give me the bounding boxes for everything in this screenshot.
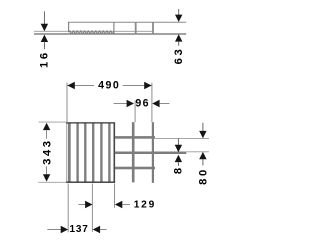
- dim 129 left stub: [78, 204, 85, 206]
- dim 137 line left: [47, 229, 61, 231]
- box divider vertical 1: [113, 22, 115, 34]
- dim 63 lower arrow: [175, 34, 182, 41]
- wavy corrugation line: [69, 31, 114, 34]
- dim 343 bottom extension: [38, 181, 66, 183]
- dim 16 upper arrow: [41, 24, 48, 31]
- dim 343 line upper segment: [46, 130, 48, 139]
- dim 96 left extension: [134, 101, 136, 123]
- slat 4: [100, 123, 102, 182]
- svg-text:96: 96: [135, 98, 149, 110]
- dim 137 left arrow: [61, 226, 68, 233]
- dim 137 right stub: [100, 229, 107, 231]
- rung 3: [115, 167, 155, 170]
- dim 129 left arrow: [85, 201, 92, 208]
- dim 80 lower stem: [202, 159, 204, 165]
- rung 1: [115, 136, 155, 139]
- box divider vertical 3: [152, 22, 154, 34]
- dim 8 lower stem: [177, 162, 179, 166]
- dim 129 right stub: [122, 204, 130, 206]
- slat 3: [92, 123, 94, 182]
- dim 343 top extension: [39, 121, 67, 123]
- svg-text:129: 129: [134, 200, 156, 211]
- rung 2 towel bar: [115, 152, 186, 155]
- rail left: [132, 122, 135, 182]
- box left vertical: [68, 22, 70, 32]
- dim 96 right arrow: [152, 100, 159, 107]
- panel bottom edge: [66, 181, 115, 183]
- dim 80 upper stem: [202, 123, 204, 132]
- panel left thin edge: [66, 123, 68, 182]
- panel right edge: [114, 123, 116, 182]
- ext below panel mid: [91, 184, 93, 232]
- dim 96 left stub: [114, 103, 127, 105]
- svg-text:490: 490: [98, 80, 120, 92]
- svg-text:137: 137: [70, 224, 89, 235]
- box top line: [68, 21, 186, 23]
- slat 1: [76, 123, 78, 182]
- dim 16 upper stem: [43, 11, 45, 24]
- dim 63 lower stem: [178, 41, 180, 46]
- rung2 extension line: [186, 151, 209, 153]
- dim 343 line lower segment: [46, 166, 48, 174]
- dim 343 top arrow: [43, 123, 50, 130]
- svg-text:80: 80: [198, 167, 210, 185]
- slat 5: [108, 123, 110, 182]
- dim 8 upper stem: [177, 139, 179, 146]
- dim 137 right arrow: [93, 226, 100, 233]
- dim 490 right arrow: [144, 82, 151, 89]
- slat 2: [84, 123, 86, 182]
- svg-text:63: 63: [173, 47, 185, 65]
- dim 490 line left segment: [68, 85, 95, 87]
- dim 16 lower arrow: [41, 35, 48, 42]
- box divider vertical 2: [135, 22, 137, 34]
- dim 343 bottom arrow: [43, 174, 50, 181]
- dim 63 upper stem: [178, 9, 180, 16]
- dim 490 left extension: [66, 83, 68, 122]
- panel left bar: [68, 123, 71, 182]
- panel top edge: [66, 122, 115, 124]
- svg-text:8: 8: [173, 168, 185, 174]
- dim 80 upper arrow: [199, 131, 206, 138]
- blade bottom line: [34, 33, 186, 35]
- ext below panel left: [67, 184, 69, 233]
- svg-text:343: 343: [42, 138, 54, 164]
- dim 490 right extension: [151, 83, 153, 123]
- dim 8 upper arrow: [175, 145, 182, 152]
- dim 490 left arrow: [67, 82, 74, 89]
- rail right: [152, 122, 154, 183]
- dim 490 line right segment: [123, 85, 152, 87]
- dim 8 lower arrow: [175, 155, 182, 162]
- blade top line: [34, 30, 154, 32]
- ext below panel right: [114, 184, 116, 208]
- dim 129 right arrow: [115, 201, 122, 208]
- dim 80 lower arrow: [199, 152, 206, 159]
- dim 63 upper arrow: [175, 15, 182, 22]
- rung1 extension line: [155, 137, 209, 139]
- dim 96 left arrow: [127, 100, 134, 107]
- dim 96 right stub: [159, 103, 169, 105]
- svg-text:16: 16: [39, 50, 51, 68]
- dim 16 lower stem: [43, 42, 45, 50]
